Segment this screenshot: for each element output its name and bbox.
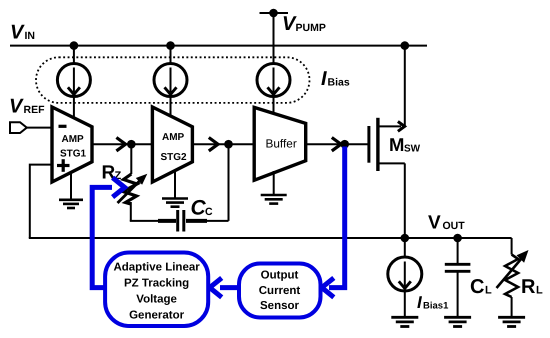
wire CL bottom <box>457 271 459 317</box>
wire VOUT rail <box>29 237 512 239</box>
svg-text:Output: Output <box>261 270 299 282</box>
current source CS3 <box>257 64 290 97</box>
svg-text:STG2: STG2 <box>161 152 188 163</box>
wire IBias1 stem bottom <box>404 291 406 318</box>
wire node to RZ top <box>130 144 132 174</box>
wire CS1 top stem <box>73 46 75 65</box>
wire CC riser to STG2 out node <box>228 144 230 221</box>
wire CC right segment <box>186 220 229 222</box>
svg-text:Sensor: Sensor <box>260 300 300 312</box>
ground RL <box>498 316 525 319</box>
wire RL bottom <box>511 297 513 317</box>
wire VREF to STG1 <box>27 127 53 129</box>
wire VIN rail <box>10 45 427 47</box>
wire IBias1 stem top <box>404 238 406 258</box>
block adaptive PZ generator <box>105 253 208 327</box>
svg-text:M: M <box>389 134 404 155</box>
wire CS2 bottom stem <box>170 96 172 118</box>
svg-text:REF: REF <box>24 104 46 116</box>
svg-text:AMP: AMP <box>162 132 185 143</box>
node VPUMP tick wire <box>260 12 289 14</box>
junction dot STG2 out <box>224 140 233 149</box>
current source CS2 <box>154 64 187 97</box>
ground CL <box>444 316 471 319</box>
svg-text:OUT: OUT <box>443 220 466 232</box>
wire MSW source down <box>404 163 406 238</box>
ground STG2 <box>174 172 176 199</box>
svg-text:Bias1: Bias1 <box>423 301 449 312</box>
svg-text:V: V <box>9 96 24 118</box>
svg-text:PZ Tracking: PZ Tracking <box>124 278 189 290</box>
buffer U3 <box>254 107 306 180</box>
svg-text:I: I <box>321 68 327 90</box>
op-amp STG1 <box>52 107 92 182</box>
arrowhead buffer out <box>332 138 341 151</box>
svg-text:V: V <box>10 22 25 44</box>
capacitor CL <box>445 263 471 266</box>
resistor RZ (variable) <box>123 174 137 204</box>
junction dot VIN/MSW drain branch <box>401 41 410 50</box>
junction dot VIN/CS2 <box>166 41 175 50</box>
block output current sensor <box>239 264 321 318</box>
svg-text:C: C <box>470 276 484 298</box>
wire CL top <box>457 238 459 264</box>
svg-text:V: V <box>428 213 441 234</box>
svg-text:Buffer: Buffer <box>266 137 297 151</box>
wire MSW drain to VIN <box>404 46 406 128</box>
svg-text:AMP: AMP <box>62 134 85 145</box>
wire blue sensor to generator <box>220 285 239 290</box>
wire buffer out to gate <box>306 143 369 145</box>
svg-text:R: R <box>521 276 536 298</box>
current source CS1 <box>57 64 90 97</box>
ground IBias1 <box>391 316 418 319</box>
wire RZ bottom <box>130 202 132 221</box>
arrowhead blue at RZ <box>113 178 125 197</box>
wire CS3 bottom stem <box>273 96 275 114</box>
svg-text:Bias: Bias <box>328 77 350 89</box>
wire CS2 top stem <box>170 46 172 65</box>
VREF input port symbol <box>10 122 27 133</box>
resistor RL (variable) <box>505 255 518 298</box>
svg-text:STG1: STG1 <box>60 149 87 160</box>
wire CC left segment <box>130 220 176 222</box>
wire blue gate node to sensor <box>329 147 345 288</box>
svg-text:PUMP: PUMP <box>296 22 326 34</box>
wire STG1 out <box>92 143 153 145</box>
junction dot VOUT/MSW <box>401 234 410 243</box>
arrowhead blue into sensor <box>322 278 334 297</box>
arrowhead blue into generator <box>210 278 222 297</box>
wire VPUMP down to current source 3 <box>273 13 275 65</box>
svg-text:Adaptive Linear: Adaptive Linear <box>113 262 200 274</box>
capacitor CC <box>158 219 176 223</box>
wire CS1 bottom stem <box>73 96 75 118</box>
wire STG2 out <box>192 143 254 145</box>
junction dot VPUMP <box>269 9 278 18</box>
svg-text:Current: Current <box>259 285 301 297</box>
svg-text:IN: IN <box>25 30 36 42</box>
wire blue generator to RZ <box>92 187 112 287</box>
transistor MSW <box>367 126 370 163</box>
wire STG1 plus feedback <box>30 165 52 238</box>
svg-text:L: L <box>536 285 543 297</box>
arrowhead STG1 out <box>116 138 125 151</box>
junction dot STG1 out <box>127 140 136 149</box>
svg-text:L: L <box>485 285 492 297</box>
wire RL top <box>511 238 513 255</box>
dashed IBias boundary <box>36 57 310 103</box>
ground buffer <box>273 171 275 195</box>
junction dot VOUT/CL <box>453 234 462 243</box>
ground STG1 <box>70 172 72 200</box>
junction dot VIN/CS1 <box>70 41 79 50</box>
svg-text:SW: SW <box>404 144 421 155</box>
svg-text:Voltage: Voltage <box>136 294 177 306</box>
junction dot gate node <box>340 140 349 149</box>
current source IBias1 <box>388 257 422 291</box>
op-amp STG2 <box>152 107 192 182</box>
svg-text:C: C <box>205 206 213 218</box>
arrowhead STG2 out <box>209 138 218 151</box>
svg-text:Generator: Generator <box>129 310 184 322</box>
